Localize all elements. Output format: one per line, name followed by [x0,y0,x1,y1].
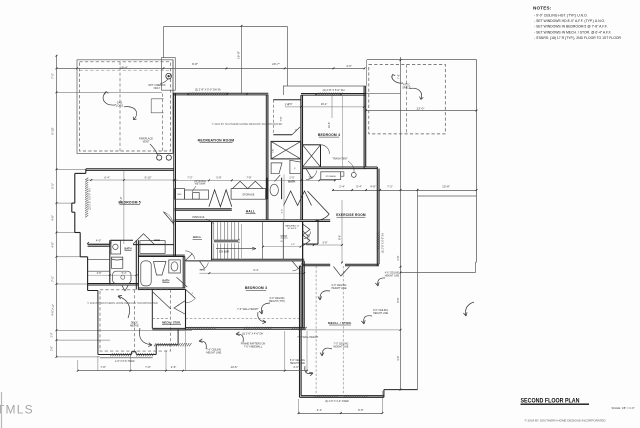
bedroom 3 windows [188,327,307,336]
svg-text:16'-4": 16'-4" [321,102,328,106]
svg-text:5'-8": 5'-8" [216,175,221,179]
svg-text:SPACE: SPACE [402,86,411,90]
svg-text:7'-6": 7'-6" [280,116,283,121]
open rail note [192,216,214,224]
porch outline [88,291,179,355]
opt. firebox note [148,73,171,90]
opt firebox unit box [151,99,163,113]
bottom dimension line [77,331,308,372]
svg-text:9'-10": 9'-10" [145,175,152,179]
svg-text:16'-8": 16'-8" [237,51,241,59]
svg-text:4'-6": 4'-6" [293,365,299,369]
svg-text:MECH. / STOR.: MECH. / STOR. [328,321,352,325]
svg-text:3'-8": 3'-8" [97,272,102,275]
dim 2'-6" right [298,255,401,390]
svg-text:7'-6" WALL HEIGHT: 7'-6" WALL HEIGHT [237,308,259,311]
svg-text:4'-6" CEILING: 4'-6" CEILING [385,273,400,275]
svg-text:7'-6": 7'-6" [145,365,151,369]
bedroom 4 bottom wall + closet [303,145,366,169]
door V to deck [122,285,129,291]
svg-text:HEIGHT LINE: HEIGHT LINE [334,345,349,348]
bonus right / rec room left wall [173,60,176,257]
wc oval cell [267,178,282,200]
bedroom4 door [306,171,317,180]
svg-text:2'-0": 2'-0" [51,346,54,351]
svg-text:36" A.F.F.: 36" A.F.F. [287,227,297,230]
svg-text:9'-4": 9'-4" [253,268,258,272]
bedroom4 closet door [321,145,330,154]
svg-text:7'-2": 7'-2" [51,73,55,79]
attic access trapezoids [271,160,301,173]
svg-text:ONLY: ONLY [154,87,161,90]
svg-text:23'-0": 23'-0" [417,106,425,110]
exercise dims [306,200,343,263]
storage closet right of bedroom3 [303,220,318,264]
svg-text:2'-6": 2'-6" [171,365,177,369]
vanity with sink [111,241,121,254]
svg-text:13'-6": 13'-6" [327,122,331,129]
stair cell divider wall [282,222,284,260]
svg-text:HALL: HALL [246,209,255,213]
svg-text:HEIGHT LINE: HEIGHT LINE [332,287,347,290]
bonus room solid outline [77,60,173,154]
linen closet with X shelves [271,141,301,159]
svg-text:1'-6": 1'-6" [291,244,296,246]
svg-text:HEIGHT LINE: HEIGHT LINE [373,312,388,315]
svg-text:4'-0": 4'-0" [51,215,55,221]
svg-text:7'-6": 7'-6" [397,74,401,79]
svg-text:- STAIRS: (18) 17 R (TYP.),: - STAIRS: (18) 17 R (TYP.), 2ND FLOOR TO… [534,36,621,40]
fireplace vent note [139,138,172,161]
svg-text:8'-6": 8'-6" [337,235,341,240]
bath se door [177,277,188,287]
svg-text:(4) 2'-8" X 4'-0" FIXED: (4) 2'-8" X 4'-0" FIXED [325,400,349,403]
svg-text:SCALE: 1/8" = 1'-0": SCALE: 1/8" = 1'-0" [612,406,635,410]
svg-text:2'-0": 2'-0" [51,332,54,337]
svg-text:2'-6": 2'-6" [289,175,294,179]
bedroom3 wall height note [237,308,266,324]
svg-text:5'-4": 5'-4" [122,272,127,275]
dim 23'-0" [365,106,477,111]
rec room cabinet above right bath [140,241,165,254]
svg-text:8'-6": 8'-6" [396,297,400,302]
svg-text:4'-6": 4'-6" [346,64,352,68]
svg-text:WET BAR: WET BAR [195,183,206,186]
svg-text:© 2024 BY SOUTHERN HOME DESIGN: © 2024 BY SOUTHERN HOME DESIGNS’ INCORPO… [87,301,158,305]
svg-text:7'-2": 7'-2" [51,276,55,282]
svg-text:7'-0" WALL HEIGHT: 7'-0" WALL HEIGHT [297,336,319,339]
svg-text:TMLS: TMLS [0,403,34,417]
chimney chase line [162,94,164,152]
bath dims [88,272,138,276]
knee wall zigzag left group [209,190,232,207]
hall/stair dims [199,224,305,274]
construction line x=417.5 [417,189,419,390]
svg-text:18'-4": 18'-4" [120,66,128,70]
svg-text:(2) 2'-8" X 5'-0" SH: (2) 2'-8" X 5'-0" SH [382,233,385,253]
ceiling height notes [290,273,400,376]
svg-text:NOTES:: NOTES: [533,6,552,11]
svg-text:LOGS: LOGS [116,104,123,108]
top closet (dashed) [273,100,301,135]
big attic slope arrow east [308,191,330,214]
bedroom 5 walls [72,169,174,291]
svg-text:7'-6" KNEEWALL: 7'-6" KNEEWALL [244,345,263,348]
right bath fixtures [141,261,151,286]
svg-text:6'-5": 6'-5" [358,408,364,412]
bedroom 4 right wall [364,86,366,168]
right wing roof outline [366,60,477,273]
frame rafters note [236,332,265,349]
deck label + leaders [118,295,152,346]
svg-text:LIN.: LIN. [273,148,275,152]
stair treads lower flight [214,243,239,259]
wall step to bedroom3 [185,290,187,330]
svg-text:(2) 2'-8" X 5'-0" SH: (2) 2'-8" X 5'-0" SH [89,188,92,209]
recreation room top wall [173,87,268,95]
closet column walls [266,95,302,220]
svg-text:STOR.: STOR. [280,235,288,238]
bath walls [88,240,185,289]
bedroom3 doors [199,263,208,270]
svg-text:4'-8": 4'-8" [370,185,376,189]
svg-text:BATH: BATH [288,180,295,184]
ridge line 16'-8" [237,25,243,93]
svg-text:4'-1": 4'-1" [317,408,323,412]
top dimension line [56,62,366,69]
tub [113,271,131,283]
watermark TMLS [0,392,34,428]
svg-text:BATH: BATH [162,278,169,282]
svg-text:5'-8": 5'-8" [323,242,328,245]
svg-text:REF.: REF. [177,194,182,196]
svg-text:3'-0": 3'-0" [281,209,283,214]
svg-text:9'-10": 9'-10" [51,127,55,134]
bedroom 5 interior dims [86,170,178,244]
svg-text:4'-0": 4'-0" [96,238,101,242]
svg-text:4'-0": 4'-0" [51,242,55,248]
svg-text:7'-2": 7'-2" [187,175,192,179]
svg-text:SECOND FLOOR PLAN: SECOND FLOOR PLAN [521,398,580,405]
svg-text:5'-4": 5'-4" [356,185,362,189]
svg-text:(3) 2'-8" X 4'-6" DH: (3) 2'-8" X 4'-6" DH [242,333,263,336]
svg-text:BATH: BATH [124,246,131,250]
hall north wall / stairwell top [175,220,331,222]
storage closet above exercise [321,172,341,180]
dim line right side y=190 [332,185,477,191]
bedroom3 ceiling note [259,297,285,314]
svg-text:HANDRAIL @: HANDRAIL @ [285,224,300,227]
mech/stor walls [300,266,418,398]
porch hatch sills [110,343,191,363]
svg-text:VENT: VENT [143,141,150,144]
bedroom 4 top wall [283,86,366,96]
svg-text:- 9'-0" CEILING HGT. (TYP.): - 9'-0" CEILING HGT. (TYP.) U.N.O. [534,14,588,18]
svg-text:14'-6": 14'-6" [230,365,237,369]
svg-text:7'-2": 7'-2" [387,185,393,189]
left dimension column [51,55,192,358]
bedroom5 bottom wall [87,238,174,246]
shower [111,257,122,268]
svg-text:4'-0": 4'-0" [51,310,55,316]
svg-text:MECH. / STOR.: MECH. / STOR. [162,321,181,325]
exercise door to mech [334,267,350,277]
gas logs note + leaders [103,92,137,120]
svg-text:STORAGE: STORAGE [242,193,255,196]
knee wall dashed bedroom3 [186,317,306,319]
bedroom5 double door [133,234,154,244]
storage box [231,181,266,199]
svg-text:- SET WINDOWS IN MECH. / STO: - SET WINDOWS IN MECH. / STOR. @ 6'-4" A… [534,30,611,34]
svg-text:15'-8": 15'-8" [442,185,450,189]
dim ext x=284 [283,174,285,220]
left mech/stor room [152,290,185,330]
svg-text:7'-2": 7'-2" [51,304,55,310]
hall dim line y=180.4 [174,175,336,181]
knee wall zigzag right group [284,191,312,206]
ceiling line note left [199,339,222,355]
ceiling height dashed lines [316,266,343,396]
hall upper wall [175,209,232,211]
svg-text:9'-8": 9'-8" [192,62,198,66]
exercise window [377,232,385,253]
bedroom5 door se [163,212,173,224]
svg-text:2'-4": 2'-4" [339,185,345,189]
porch dashed roof line [100,290,171,351]
bedroom4 window centerline [341,96,343,170]
exercise room walls [303,167,379,266]
rec room se door arc [185,251,195,259]
svg-text:BEDROOM 4: BEDROOM 4 [318,133,340,137]
svg-text:EXERCISE ROOM: EXERCISE ROOM [336,213,366,217]
leader hook right bump [466,302,474,316]
bedroom 3 walls [186,261,306,329]
stair treads upper flight [214,222,239,242]
hall bath door [275,175,281,182]
svg-text:- SET WINDOWS IN BEDROOM 5 @: - SET WINDOWS IN BEDROOM 5 @ 7'-8" A.F.F… [534,25,608,29]
svg-text:HEIGHT LINE: HEIGHT LINE [206,352,221,355]
mech windows [314,395,368,403]
svg-text:BEDROOM 3: BEDROOM 3 [245,286,267,290]
svg-text:7'-8": 7'-8" [246,175,251,179]
svg-text:12'-4": 12'-4" [119,197,123,204]
svg-text:(2) 2'-8" X 5'-0" DH 3A: (2) 2'-8" X 5'-0" DH 3A [195,87,221,91]
svg-text:7'-6": 7'-6" [100,365,106,369]
svg-text:5'-2": 5'-2" [51,183,55,189]
svg-text:3'-6": 3'-6" [200,268,205,272]
mech room door [153,292,171,309]
attic dashed outline (right) [369,64,446,133]
svg-text:OPEN RAIL: OPEN RAIL [192,216,205,219]
bonus room dashed outline [80,62,171,151]
optional wet bar cabinets [175,180,209,199]
porch step tread [100,357,153,359]
svg-text:© 2024 BY SOUTHERN HOME DESIGN: © 2024 BY SOUTHERN HOME DESIGNS INCORPOR… [524,419,606,423]
svg-text:TRASH VENT: TRASH VENT [332,157,348,160]
svg-text:3'-6": 3'-6" [237,238,241,243]
svg-text:STORAGE: STORAGE [326,175,337,178]
svg-text:RECREATION ROOM: RECREATION ROOM [198,138,235,142]
handrail / stor notes [262,224,301,247]
svg-text:HEIGHT (TYP.): HEIGHT (TYP.) [269,300,285,303]
stairwell walls [186,222,305,261]
bedroom 4 interior dim [285,95,365,128]
trash vent note [332,157,356,177]
hall lower wall / bedroom3-mech wall [304,255,383,257]
bottom dim line mech [298,391,384,414]
svg-text:© 2024 BY SOUTHERN HOME DESIGN: © 2024 BY SOUTHERN HOME DESIGNS’ INCORPO… [212,122,283,126]
svg-text:HALL: HALL [193,235,202,239]
title: SECOND FLOOR PLAN [521,398,635,423]
svg-text:20'-7": 20'-7" [272,62,280,66]
svg-text:1'-6" X 5'-6" TRED: 1'-6" X 5'-6" TRED [115,360,135,363]
svg-text:DN 18R: DN 18R [219,249,229,253]
svg-text:2'-6": 2'-6" [396,255,400,260]
svg-text:6'-4": 6'-4" [104,175,109,179]
svg-text:- SET WINDOWS HD 8'-0" A.F.F: - SET WINDOWS HD 8'-0" A.F.F. (TYP.) U.N… [534,19,605,23]
svg-text:4'-6": 4'-6" [287,102,292,106]
svg-text:ABOVE: ABOVE [130,324,139,328]
svg-text:(2) 2'-8" X 5'-0" DH: (2) 2'-8" X 5'-0" DH [323,88,345,92]
notes block [533,6,621,40]
roof line lower right [418,195,477,197]
svg-text:3'-6": 3'-6" [396,355,400,360]
dn arrow + label [216,247,256,253]
svg-text:HEIGHT LINE: HEIGHT LINE [385,276,400,278]
roof outline above recreation room [162,27,288,91]
construction line x=400.5 [400,57,402,390]
bedroom3 west door [185,289,195,299]
